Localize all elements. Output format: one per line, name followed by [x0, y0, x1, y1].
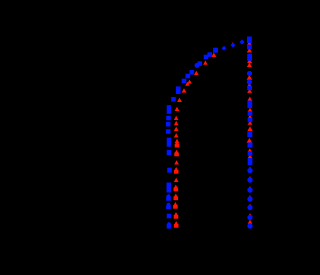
right column: blue circles lower segment [247, 168, 252, 229]
left band: blue column markers [166, 105, 172, 229]
arc: blue markers [171, 40, 244, 102]
arc: red triangles (behind) [182, 42, 235, 93]
left band: red triangle column [173, 98, 182, 228]
right column: blue squares upper segment [247, 37, 253, 166]
right column: red triangles upper segment [247, 37, 253, 158]
right column: red caps lower segment (behind circles) [248, 167, 253, 224]
